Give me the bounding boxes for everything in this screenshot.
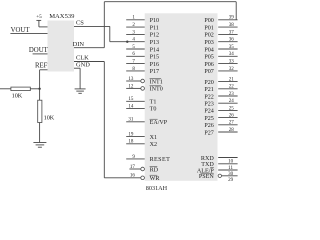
svg-text:P13: P13 bbox=[150, 40, 159, 46]
pin 10 RXD bbox=[201, 156, 238, 165]
svg-text:P07: P07 bbox=[204, 69, 213, 75]
wire R2 down to ground bbox=[39, 123, 41, 143]
pin 2 stub P11 bbox=[126, 23, 159, 31]
wire +5 to U1 VDD bbox=[39, 26, 48, 28]
svg-text:19: 19 bbox=[128, 133, 134, 138]
svg-text:21: 21 bbox=[229, 78, 235, 83]
svg-text:RXD: RXD bbox=[201, 156, 214, 162]
pin 7 stub P16 bbox=[126, 60, 159, 68]
svg-text:39: 39 bbox=[229, 16, 235, 21]
power +5 supply symbol bbox=[36, 14, 42, 27]
svg-text:P21: P21 bbox=[204, 87, 213, 93]
pin 15 T1 bbox=[126, 97, 156, 105]
svg-text:P23: P23 bbox=[204, 102, 213, 108]
svg-text:VOUT: VOUT bbox=[11, 27, 31, 34]
pin 3 stub P12 bbox=[126, 30, 159, 38]
svg-text:P06: P06 bbox=[204, 62, 213, 68]
pin 24 stub P23 bbox=[204, 99, 237, 107]
svg-text:P00: P00 bbox=[204, 18, 213, 24]
svg-text:P10: P10 bbox=[150, 18, 159, 24]
pin 25 stub P24 bbox=[204, 106, 237, 114]
wire CS to P13 bbox=[110, 41, 128, 43]
svg-text:P05: P05 bbox=[204, 55, 213, 61]
svg-text:T0: T0 bbox=[150, 107, 157, 113]
pin 12 INT0 (active low, circle) bbox=[126, 84, 163, 92]
svg-text:22: 22 bbox=[229, 85, 235, 90]
wire CLK to WR bbox=[104, 177, 141, 179]
svg-text:P22: P22 bbox=[204, 94, 213, 100]
svg-text:10K: 10K bbox=[12, 92, 23, 99]
pin 28 stub P27 bbox=[204, 128, 237, 136]
svg-text:P14: P14 bbox=[150, 47, 159, 53]
svg-text:GND: GND bbox=[76, 61, 90, 68]
pin 4 stub P13 bbox=[126, 38, 159, 46]
pin 35 stub P04 bbox=[204, 45, 237, 53]
wire DIN from U1 bbox=[74, 47, 104, 49]
pin 30 ALE/P bbox=[197, 167, 238, 177]
microcontroller U2 8031AH body bbox=[145, 13, 218, 181]
pin 26 stub P25 bbox=[204, 114, 237, 122]
ground symbol below U1 GND bbox=[75, 89, 86, 93]
svg-text:P03: P03 bbox=[204, 40, 213, 46]
wire CLK from U1 bbox=[74, 61, 104, 63]
wire GND from U1 bbox=[74, 67, 80, 69]
svg-text:P17: P17 bbox=[150, 69, 159, 75]
pin 33 stub P06 bbox=[204, 60, 237, 68]
pin 5 stub P14 bbox=[126, 45, 159, 53]
pin 17 RD (active low, circle) bbox=[129, 165, 158, 173]
wire DOUT to U1 bbox=[33, 53, 48, 55]
svg-text:P26: P26 bbox=[204, 123, 213, 129]
pin 34 stub P05 bbox=[204, 52, 237, 60]
svg-text:35: 35 bbox=[229, 45, 235, 50]
pin 21 stub P20 bbox=[204, 78, 237, 86]
pin 29 PSEN bbox=[199, 173, 238, 183]
svg-text:P02: P02 bbox=[204, 33, 213, 39]
svg-text:DIN: DIN bbox=[73, 41, 85, 48]
svg-text:33: 33 bbox=[229, 60, 235, 65]
svg-text:P11: P11 bbox=[150, 25, 159, 31]
svg-text:CLK: CLK bbox=[76, 54, 89, 61]
svg-text:P20: P20 bbox=[204, 80, 213, 86]
svg-text:INT0: INT0 bbox=[150, 87, 163, 93]
svg-text:MAX539: MAX539 bbox=[49, 13, 75, 20]
svg-text:36: 36 bbox=[229, 38, 235, 43]
svg-text:P16: P16 bbox=[150, 62, 159, 68]
pin 23 stub P22 bbox=[204, 92, 237, 100]
svg-text:15: 15 bbox=[128, 97, 134, 102]
svg-text:16: 16 bbox=[130, 174, 136, 179]
svg-text:38: 38 bbox=[229, 23, 235, 28]
pin 16 WR (active low, circle) bbox=[130, 174, 160, 182]
pin 9 RESET bbox=[126, 155, 170, 163]
svg-text:DOUT: DOUT bbox=[29, 47, 49, 54]
wire CS from U1 bbox=[74, 25, 110, 27]
svg-text:P04: P04 bbox=[204, 47, 213, 53]
wire R1 to junction bbox=[30, 88, 39, 90]
svg-text:27: 27 bbox=[229, 121, 235, 126]
wire GND down bbox=[79, 68, 81, 89]
pin 13 INT1 (active low, circle) bbox=[126, 77, 163, 85]
svg-text:RD: RD bbox=[150, 167, 159, 173]
svg-text:23: 23 bbox=[229, 92, 235, 97]
junction dot REF node bbox=[38, 88, 40, 90]
ground symbol below R2 bbox=[33, 143, 46, 148]
pin 11 TXD bbox=[201, 162, 237, 171]
wire top run to right bbox=[104, 1, 236, 3]
svg-text:31: 31 bbox=[128, 118, 134, 123]
svg-text:17: 17 bbox=[130, 165, 136, 170]
svg-text:WR: WR bbox=[150, 176, 161, 182]
wire CS riser down bbox=[109, 26, 111, 41]
wire VOUT to U1 bbox=[10, 33, 47, 35]
pin 37 stub P02 bbox=[204, 30, 237, 38]
pin 6 stub P15 bbox=[126, 52, 159, 60]
svg-text:34: 34 bbox=[229, 52, 235, 57]
pin 8 stub P17 bbox=[126, 67, 159, 75]
svg-text:25: 25 bbox=[229, 106, 235, 111]
svg-text:RESET: RESET bbox=[150, 157, 171, 163]
wire REF down to resistor junction bbox=[39, 70, 41, 89]
svg-text:X2: X2 bbox=[150, 142, 157, 148]
svg-text:CS: CS bbox=[76, 20, 84, 27]
svg-text:13: 13 bbox=[128, 77, 134, 82]
wire left lead of R1 bbox=[0, 88, 11, 90]
wire REF to U1 bbox=[40, 69, 48, 71]
svg-text:14: 14 bbox=[128, 104, 134, 109]
svg-text:P15: P15 bbox=[150, 55, 159, 61]
pin 39 stub P00 bbox=[204, 16, 237, 24]
pin 27 stub P26 bbox=[204, 121, 237, 129]
wire CLK riser down bbox=[103, 62, 105, 178]
pin 19 X1 bbox=[126, 133, 157, 141]
resistor R1 10K horizontal bbox=[11, 87, 30, 91]
pin 1 stub P10 bbox=[126, 16, 159, 24]
svg-text:18: 18 bbox=[128, 140, 134, 145]
svg-text:+5: +5 bbox=[36, 14, 42, 20]
svg-text:EA/VP: EA/VP bbox=[150, 120, 168, 126]
svg-text:PSEN: PSEN bbox=[199, 174, 215, 180]
svg-text:T1: T1 bbox=[150, 100, 157, 106]
svg-text:8031AH: 8031AH bbox=[146, 185, 168, 192]
svg-text:28: 28 bbox=[229, 128, 235, 133]
pin 32 stub P07 bbox=[204, 67, 237, 75]
pin 22 stub P21 bbox=[204, 85, 237, 93]
svg-text:P27: P27 bbox=[204, 130, 213, 136]
wire right riser down to P00 bbox=[235, 2, 237, 20]
svg-text:REF: REF bbox=[35, 62, 48, 69]
wire junction down to R2 bbox=[39, 89, 41, 100]
svg-text:INT1: INT1 bbox=[150, 79, 163, 85]
pin 18 X2 bbox=[126, 140, 157, 148]
svg-text:29: 29 bbox=[228, 178, 234, 183]
svg-text:12: 12 bbox=[128, 84, 134, 89]
svg-text:P01: P01 bbox=[204, 25, 213, 31]
svg-text:10K: 10K bbox=[44, 115, 55, 122]
svg-text:P25: P25 bbox=[204, 116, 213, 122]
svg-text:P24: P24 bbox=[204, 109, 213, 115]
svg-text:37: 37 bbox=[229, 30, 235, 35]
wire DIN riser up bbox=[103, 2, 105, 48]
svg-text:32: 32 bbox=[229, 67, 235, 72]
junction dot at P13 bbox=[126, 41, 128, 43]
svg-text:X1: X1 bbox=[150, 135, 157, 141]
svg-text:P12: P12 bbox=[150, 33, 159, 39]
pin 36 stub P03 bbox=[204, 38, 237, 46]
pin 14 T0 bbox=[126, 104, 156, 112]
svg-text:24: 24 bbox=[229, 99, 235, 104]
IC U1 MAX539 DAC body bbox=[48, 21, 75, 72]
pin 31 EA/VP (overline on EA) bbox=[126, 118, 168, 126]
svg-text:26: 26 bbox=[229, 114, 235, 119]
resistor R2 10K vertical bbox=[38, 100, 42, 122]
pin 38 stub P01 bbox=[204, 23, 237, 31]
